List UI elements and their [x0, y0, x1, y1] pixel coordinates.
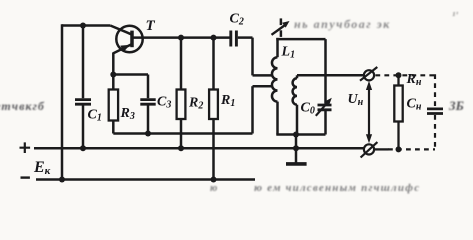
emitter node horizontal wire to C3 — [113, 73, 148, 76]
junction dot C1/plus rail — [80, 145, 86, 151]
wire: top rail (collector feed) — [62, 24, 110, 27]
resistor R3 body — [109, 90, 118, 121]
minus rail — [36, 178, 255, 181]
capacitor C1 plates — [75, 100, 91, 105]
minus sign of Ek — [21, 176, 30, 178]
junction dot C3 bottom — [145, 131, 151, 137]
inductor L1 top wire — [276, 38, 279, 57]
junction dot base/R2 — [178, 35, 184, 41]
svg-text:¹': ¹' — [452, 10, 458, 22]
svg-text:ю ем чилсвенным пгчшлифс: ю ем чилсвенным пгчшлифс — [254, 182, 420, 194]
resistor R2 top wire — [180, 38, 183, 90]
junction dot Rн top — [396, 72, 402, 78]
tank bottom wire — [276, 133, 325, 136]
lower output terminal circle — [364, 144, 374, 154]
variable inductor core tick upper — [280, 18, 283, 25]
dashed wire from upper terminal to load — [375, 74, 435, 76]
junction dot tank bottom / ground — [293, 132, 299, 138]
transistor base lead — [133, 36, 229, 39]
junction dot R1 / minus rail — [211, 177, 217, 183]
capacitor C0 branch top wire — [324, 39, 327, 104]
wire: left vertical x=62 from top rail to minus rail — [61, 24, 64, 179]
transistor T circle — [116, 26, 142, 52]
junction dot base/R1 — [211, 35, 217, 41]
resistor R2 bottom wire — [180, 119, 183, 148]
junction dot emitter node — [110, 72, 116, 78]
variable capacitor arrowhead — [325, 98, 332, 105]
variable inductor arrowhead — [282, 21, 289, 28]
wire lower tap stub — [253, 85, 273, 88]
transistor emitter diagonal — [113, 44, 131, 53]
emitter network bottom line y=133.5 — [113, 132, 252, 135]
resistor R1 top wire — [212, 38, 215, 90]
variable inductor arrow shaft — [272, 24, 287, 35]
wire upper tap stub — [253, 74, 273, 77]
junction dot Rн bottom — [396, 146, 402, 152]
resistor R1 bottom wire — [212, 119, 215, 180]
output coupling wire to upper terminal — [297, 74, 364, 77]
ground stub — [295, 135, 298, 163]
capacitor C1 bottom wire — [82, 105, 85, 148]
svg-text:T: T — [146, 18, 156, 34]
svg-text:ю: ю — [210, 183, 217, 194]
capacitor C0 plates — [318, 105, 332, 110]
resistor R2 body — [177, 90, 186, 120]
capacitor C1 top wire — [82, 26, 85, 99]
Uн arrowhead down — [366, 134, 372, 143]
inductor L1 bottom wire — [276, 102, 279, 135]
transistor T base bar — [130, 31, 134, 48]
junction dot ground / plus rail — [293, 145, 299, 151]
svg-text:гтчвкгб: гтчвкгб — [0, 99, 45, 113]
dashed load right branch lower — [434, 115, 436, 151]
tank top wire — [276, 38, 325, 41]
resistor R1 body — [209, 90, 218, 120]
wire C2 down to upper tap — [251, 38, 254, 76]
ghost print-through text top right — [294, 10, 458, 31]
wire lower tap down to emitter line — [251, 86, 254, 133]
Uн measurement arrow shaft — [368, 88, 370, 137]
junction dot R2/plus rail — [178, 145, 184, 151]
plus sign of Ek — [20, 142, 31, 153]
coupling coil winding (3 arcs) — [293, 78, 297, 104]
load resistor Rн body — [394, 86, 402, 122]
capacitor C3 bottom wire — [147, 105, 150, 133]
Uн arrowhead up — [366, 81, 372, 90]
upper output terminal circle — [364, 70, 374, 80]
load capacitor Cн plates — [427, 109, 443, 114]
capacitor C0 bottom wire — [324, 111, 327, 135]
variable capacitor C0 arrow shaft — [316, 101, 329, 116]
svg-text:ЗБ: ЗБ — [448, 98, 464, 113]
capacitor C3 plates — [140, 100, 155, 105]
upper terminal slash — [360, 67, 377, 81]
junction dot left vertical / minus rail — [59, 177, 65, 183]
emitter arrowhead (PNP) — [120, 45, 130, 52]
wire lower terminal solid stub — [374, 148, 388, 150]
dashed wire lower terminal to load — [388, 148, 435, 150]
wire: collector diagonal into transistor — [110, 26, 131, 35]
capacitor C3 top wire — [147, 75, 150, 99]
capacitor C2 plates — [231, 31, 237, 47]
inductor L1 winding (4 arcs) — [272, 57, 278, 101]
lower terminal slash — [361, 142, 378, 157]
dashed load right branch upper — [434, 74, 436, 107]
capacitor C2 output wire — [238, 36, 253, 39]
ghost print-through text bottom — [210, 182, 420, 194]
dashed load box — [375, 74, 435, 150]
resistor R3 top wire — [112, 75, 115, 90]
variable inductor core tick lower — [280, 30, 283, 37]
emitter vertical wire — [112, 52, 115, 74]
load resistor Rн top wire — [397, 75, 399, 85]
junction dot top rail / C1 — [80, 23, 86, 29]
resistor R3 bottom wire — [112, 121, 115, 134]
plus rail — [34, 147, 364, 150]
coupling coil bottom wire — [296, 105, 299, 135]
ground bar — [286, 162, 307, 166]
load resistor Rн bottom wire — [397, 122, 399, 150]
coupling coil top corner wire — [296, 75, 299, 78]
svg-text:нь апучбоаг эк: нь апучбоаг эк — [294, 17, 391, 31]
